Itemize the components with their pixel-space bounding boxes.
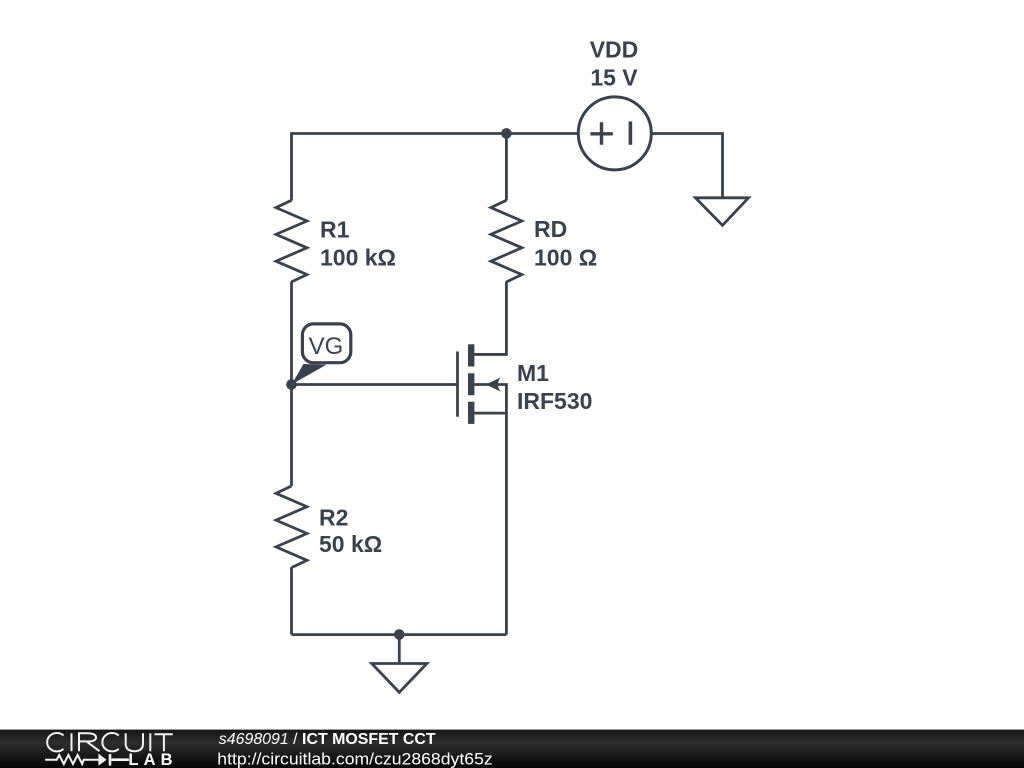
label VDD name (590, 37, 639, 63)
svg-text:15 V: 15 V (590, 65, 638, 91)
ground bottom (372, 664, 427, 693)
wire bottom rail (292, 633, 507, 636)
svg-text:100 Ω: 100 Ω (534, 244, 597, 270)
label RD name (534, 216, 567, 242)
svg-text:RD: RD (534, 216, 567, 242)
svg-text:100 kΩ: 100 kΩ (320, 245, 396, 271)
svg-text:M1: M1 (517, 360, 549, 386)
label R1 value 100 kOhm (320, 245, 396, 271)
transistor M1 body lead with arrow wire (474, 385, 506, 414)
footer url text (217, 750, 492, 768)
footer bar background (0, 730, 1024, 768)
svg-text:50 kΩ: 50 kΩ (319, 531, 382, 557)
node VG junction dot (286, 379, 297, 390)
svg-text:http://circuitlab.com/czu2868d: http://circuitlab.com/czu2868dyt65z (217, 750, 492, 768)
svg-text:R1: R1 (320, 216, 350, 242)
svg-text:s4698091 / ICT MOSFET CCT: s4698091 / ICT MOSFET CCT (219, 731, 436, 748)
voltage source V1 circle (578, 97, 651, 170)
label M1 name (517, 360, 549, 386)
wire ground stem bottom (398, 635, 401, 664)
label VDD value 15 V (590, 65, 638, 91)
resistor R1 (276, 200, 307, 282)
node VG flag pointer tail (292, 364, 327, 385)
CircuitLab logo LAB wordmark (128, 751, 172, 768)
svg-text:VG: VG (309, 333, 344, 360)
transistor M1 source channel bar (468, 402, 474, 424)
svg-text:LAB: LAB (128, 751, 172, 768)
wire gate from VG node to MOSFET gate (292, 383, 458, 386)
node junction dot at bottom rail (394, 629, 405, 640)
svg-text:VDD: VDD (590, 37, 639, 63)
label R2 value 50 kOhm (319, 531, 382, 557)
CircuitLab logo resistor-diode wire row (45, 754, 129, 766)
label RD value 100 Ohm (534, 244, 597, 270)
label R1 name (320, 216, 350, 242)
svg-text:IRF530: IRF530 (517, 388, 592, 414)
transistor M1 gate plate (456, 352, 459, 417)
transistor M1 body channel bar (468, 373, 474, 395)
wire left vertical bottom segment R2 to bottom rail (290, 567, 293, 634)
footer schematic id and title text (219, 731, 436, 748)
wire left vertical top segment (290, 132, 293, 200)
wire RD bottom to MOSFET drain (468, 282, 506, 355)
voltage source minus bar (629, 121, 633, 144)
transistor M1 drain channel bar (468, 344, 474, 366)
wire from voltage source to right corner down to ground (651, 134, 723, 198)
resistor R2 (276, 486, 307, 568)
label M1 part IRF530 (517, 388, 592, 414)
wire MOSFET source down to bottom rail (468, 413, 506, 634)
wire left vertical middle segment R1 bottom to R2 top through VG node (290, 282, 293, 487)
resistor RD (491, 200, 522, 282)
label VG text (309, 333, 344, 360)
transistor M1 drain horizontal lead (471, 353, 506, 356)
voltage source plus sign (590, 122, 612, 145)
label R2 name (319, 505, 348, 531)
node junction dot at top rail (501, 128, 512, 139)
transistor M1 body arrow head (486, 377, 501, 391)
wire RD top vertical (505, 132, 508, 200)
CircuitLab logo CIRCUIT wordmark (47, 733, 173, 751)
ground top right (696, 198, 749, 226)
wire top horizontal from R1 branch to voltage source (292, 132, 579, 135)
node VG flag box (302, 324, 350, 363)
svg-text:R2: R2 (319, 505, 348, 531)
